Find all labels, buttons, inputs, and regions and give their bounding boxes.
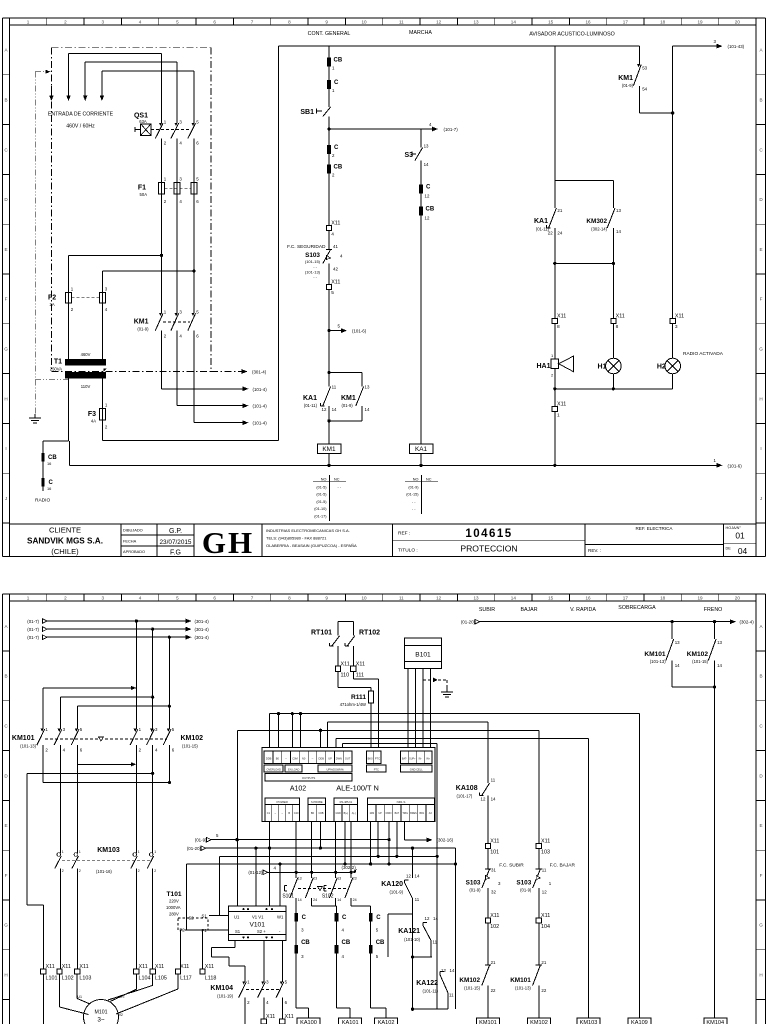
svg-text:KA121: KA121	[398, 928, 420, 935]
svg-text:REF :: REF :	[398, 531, 410, 537]
svg-text:X11: X11	[205, 964, 214, 970]
svg-text:KM1: KM1	[618, 75, 633, 82]
svg-text:KA1: KA1	[534, 218, 548, 225]
svg-text:12: 12	[436, 596, 442, 601]
svg-text:W2: W2	[118, 1013, 123, 1017]
svg-text:C: C	[302, 915, 307, 921]
svg-text:6: 6	[213, 596, 216, 601]
svg-text:W1: W1	[277, 915, 284, 920]
svg-text:X11: X11	[266, 1014, 275, 1020]
svg-text:RS-485-61: RS-485-61	[340, 800, 353, 804]
svg-text:3: 3	[675, 324, 678, 330]
svg-text:DIBUJADO: DIBUJADO	[123, 528, 143, 533]
svg-text:TRIG: TRIG	[402, 812, 408, 815]
svg-text:H: H	[759, 396, 762, 401]
svg-text:11: 11	[415, 897, 420, 902]
svg-text:T1: T1	[54, 359, 62, 366]
svg-text:X11: X11	[557, 402, 566, 408]
svg-text:54: 54	[642, 87, 647, 92]
svg-text:(101-15): (101-15)	[464, 986, 480, 991]
svg-text:BRES: BRES	[410, 812, 417, 815]
svg-text:X11: X11	[675, 314, 684, 320]
svg-text:12: 12	[436, 19, 442, 24]
svg-text:G: G	[4, 923, 8, 928]
svg-text:(101-16): (101-16)	[96, 869, 112, 874]
svg-text:L101: L101	[46, 975, 58, 981]
svg-text:31: 31	[491, 868, 496, 873]
svg-text:F1: F1	[138, 185, 146, 192]
svg-text:S1: S1	[202, 913, 208, 918]
svg-text:(01-9): (01-9)	[520, 888, 532, 893]
svg-text:24: 24	[353, 898, 357, 902]
svg-text:7: 7	[251, 596, 254, 601]
svg-text:19: 19	[697, 596, 703, 601]
svg-text:(101-17): (101-17)	[457, 794, 473, 799]
svg-text:(01-17): (01-17)	[314, 515, 327, 519]
svg-text:C0B: C0B	[318, 811, 323, 815]
svg-text:BAJAR: BAJAR	[520, 607, 537, 613]
svg-text:(301-4): (301-4)	[195, 627, 210, 632]
svg-text:KM1: KM1	[341, 395, 356, 402]
svg-text:H: H	[4, 396, 7, 401]
svg-text:24: 24	[313, 898, 317, 902]
svg-text:13: 13	[424, 143, 429, 148]
svg-text:BR1: BR1	[420, 812, 425, 815]
svg-text:X11: X11	[490, 913, 499, 919]
svg-text:11: 11	[399, 19, 404, 24]
svg-text:B: B	[288, 811, 290, 815]
svg-text:M101: M101	[95, 1010, 108, 1016]
svg-text:17: 17	[623, 596, 629, 601]
svg-text:14: 14	[337, 898, 341, 902]
svg-text:B0: B0	[311, 811, 315, 815]
svg-text:12: 12	[481, 797, 486, 802]
svg-text:1: 1	[27, 596, 30, 601]
svg-text:(101-10): (101-10)	[404, 937, 420, 942]
svg-text:REV. :: REV. :	[588, 548, 601, 553]
svg-text:111: 111	[356, 673, 364, 679]
svg-text:PTC: PTC	[374, 767, 379, 771]
svg-text:20: 20	[735, 19, 741, 24]
svg-text:(302-4): (302-4)	[740, 620, 755, 625]
svg-text:B: B	[4, 674, 7, 679]
svg-text:01: 01	[735, 531, 745, 541]
svg-text:H2: H2	[657, 364, 666, 371]
svg-text:4: 4	[331, 231, 334, 237]
svg-text:15: 15	[548, 596, 554, 601]
svg-text:X11: X11	[331, 280, 340, 286]
svg-text:BAT: BAT	[395, 812, 400, 815]
svg-text:(01-7): (01-7)	[27, 635, 39, 640]
svg-text:C20: C20	[294, 811, 299, 815]
svg-text:X11: X11	[341, 661, 350, 667]
svg-text:DWN: DWN	[336, 757, 342, 761]
svg-text:20: 20	[735, 596, 741, 601]
svg-text:DE: DE	[726, 547, 732, 551]
svg-text:50A: 50A	[140, 192, 148, 197]
svg-text:(101-6): (101-6)	[352, 329, 367, 334]
svg-text:FECHA: FECHA	[123, 538, 137, 543]
svg-text:14: 14	[491, 797, 496, 802]
svg-text:2: 2	[64, 596, 67, 601]
svg-text:14: 14	[675, 663, 680, 668]
svg-text:X11: X11	[285, 1014, 294, 1020]
svg-text:24: 24	[557, 231, 562, 236]
svg-text:(CHILE): (CHILE)	[51, 547, 79, 556]
svg-text:(101-19): (101-19)	[217, 994, 233, 999]
svg-text:10M: 10M	[369, 812, 374, 815]
svg-text:PTC: PTC	[375, 757, 380, 761]
svg-text:5: 5	[176, 19, 179, 24]
svg-text:8: 8	[557, 324, 560, 330]
svg-text:GND: GND	[335, 812, 341, 815]
svg-text:A102: A102	[290, 786, 306, 793]
svg-text:(301-4): (301-4)	[252, 370, 267, 375]
svg-text:H: H	[759, 973, 762, 978]
svg-text:E: E	[4, 247, 7, 252]
svg-text:IN-: IN-	[419, 758, 422, 761]
svg-text:22: 22	[491, 988, 496, 993]
svg-text:KM101: KM101	[479, 1020, 497, 1024]
svg-text:14: 14	[298, 898, 302, 902]
svg-text:14: 14	[511, 596, 517, 601]
svg-text:10: 10	[361, 596, 367, 601]
svg-text:9: 9	[325, 596, 328, 601]
svg-text:4A: 4A	[91, 418, 96, 423]
svg-text:ENTRADA DE CORRIENTE: ENTRADA DE CORRIENTE	[48, 112, 114, 118]
svg-text:CB: CB	[301, 940, 310, 946]
svg-text:- -: - -	[313, 264, 317, 269]
svg-text:C: C	[334, 145, 339, 151]
svg-text:63A: 63A	[139, 119, 147, 124]
svg-text:102: 102	[490, 924, 499, 930]
svg-text:110: 110	[341, 673, 350, 679]
svg-text:1: 1	[154, 850, 156, 854]
svg-text:EN.LOAD: EN.LOAD	[288, 767, 300, 771]
svg-text:250VA: 250VA	[50, 366, 62, 371]
svg-text:(01-9): (01-9)	[137, 327, 149, 332]
svg-text:UP%/DOWN%: UP%/DOWN%	[327, 767, 345, 771]
svg-text:8: 8	[288, 596, 291, 601]
svg-text:(302-14): (302-14)	[591, 227, 607, 232]
svg-text:C0M: C0M	[292, 757, 297, 761]
svg-text:T101: T101	[167, 891, 182, 898]
svg-text:G: G	[759, 923, 763, 928]
svg-text:L104: L104	[139, 975, 151, 981]
svg-text:21: 21	[557, 208, 562, 213]
svg-text:(01-20): (01-20)	[187, 846, 202, 851]
svg-text:1: 1	[79, 850, 81, 854]
svg-text:10: 10	[361, 19, 367, 24]
svg-text:14: 14	[332, 407, 337, 412]
svg-text:(101-7): (101-7)	[444, 127, 459, 132]
svg-text:S101: S101	[282, 894, 294, 900]
svg-text:(01-9): (01-9)	[195, 837, 207, 842]
svg-text:X11: X11	[46, 964, 55, 970]
svg-text:RT101: RT101	[311, 630, 332, 637]
svg-text:104: 104	[541, 924, 550, 930]
svg-text:X11: X11	[490, 839, 499, 845]
svg-text:DDB: DDB	[266, 757, 272, 761]
svg-text:110V: 110V	[81, 384, 91, 389]
svg-text:11: 11	[399, 596, 404, 601]
svg-text:19: 19	[697, 19, 703, 24]
svg-text:(101-43): (101-43)	[728, 44, 745, 49]
svg-text:2A: 2A	[50, 302, 55, 307]
svg-text:KA101: KA101	[342, 1020, 359, 1024]
svg-text:--: --	[274, 812, 276, 815]
svg-text:C: C	[334, 80, 339, 86]
svg-text:C: C	[376, 915, 381, 921]
svg-text:X11: X11	[356, 661, 365, 667]
svg-text:12: 12	[441, 968, 446, 973]
svg-text:L118: L118	[205, 975, 217, 981]
svg-text:HA1: HA1	[536, 363, 550, 370]
svg-text:SUP+: SUP+	[409, 758, 416, 761]
svg-text:2: 2	[79, 869, 81, 873]
svg-text:13: 13	[717, 640, 722, 645]
svg-text:13: 13	[365, 385, 370, 390]
svg-text:C: C	[426, 185, 431, 191]
svg-text:UP: UP	[328, 757, 332, 761]
svg-text:OUTPUTS: OUTPUTS	[302, 776, 315, 780]
svg-text:CB: CB	[342, 940, 351, 946]
svg-text:GH: GH	[202, 525, 254, 560]
svg-text:MARCHA: MARCHA	[409, 30, 432, 36]
svg-text:(01-9): (01-9)	[469, 888, 481, 893]
svg-text:E: E	[4, 823, 7, 828]
svg-text:1: 1	[62, 850, 64, 854]
svg-text:E: E	[759, 823, 762, 828]
svg-text:FRENO: FRENO	[704, 607, 723, 613]
svg-text:42: 42	[333, 267, 338, 272]
svg-text:460V: 460V	[81, 352, 91, 357]
svg-text:13: 13	[473, 19, 479, 24]
svg-text:U1: U1	[234, 915, 240, 920]
svg-text:53: 53	[642, 66, 647, 71]
svg-text:18: 18	[660, 596, 666, 601]
svg-text:(301-4): (301-4)	[195, 619, 210, 624]
svg-text:I: I	[760, 446, 761, 451]
svg-text:B(+): B(+)	[344, 812, 349, 815]
svg-text:280V: 280V	[169, 912, 179, 917]
svg-text:TELS: (943)805980 - FAX 888721: TELS: (943)805980 - FAX 888721	[266, 535, 327, 540]
svg-text:103: 103	[541, 850, 550, 856]
svg-text:RT102: RT102	[359, 630, 380, 637]
svg-text:KM101: KM101	[510, 977, 531, 984]
svg-text:13: 13	[298, 877, 302, 881]
svg-text:B: B	[759, 674, 762, 679]
svg-text:SB1: SB1	[300, 109, 314, 116]
svg-text:B101: B101	[415, 652, 431, 659]
svg-text:J: J	[760, 496, 762, 501]
svg-text:23: 23	[353, 877, 357, 881]
svg-text:CB: CB	[334, 58, 343, 64]
svg-text:1: 1	[27, 19, 30, 24]
svg-text:IN+: IN+	[426, 758, 430, 761]
svg-text:KM102: KM102	[181, 735, 204, 742]
svg-text:21: 21	[541, 960, 546, 965]
svg-text:S2 +: S2 +	[257, 929, 266, 934]
svg-text:14: 14	[433, 916, 438, 921]
svg-text:GND CELL: GND CELL	[410, 767, 424, 771]
svg-text:G: G	[4, 347, 8, 352]
svg-text:X11: X11	[139, 964, 148, 970]
svg-text:KA109: KA109	[631, 1020, 648, 1024]
svg-text:KA108: KA108	[456, 785, 478, 792]
svg-text:2: 2	[154, 869, 156, 873]
svg-text:11: 11	[449, 993, 454, 998]
svg-text:3: 3	[101, 596, 104, 601]
svg-text:12: 12	[406, 874, 411, 879]
svg-text:(01-5): (01-5)	[316, 493, 327, 497]
svg-text:V1 V1: V1 V1	[252, 915, 264, 920]
svg-text:KM1: KM1	[134, 319, 149, 326]
svg-text:22: 22	[541, 988, 546, 993]
svg-text:104615: 104615	[465, 528, 512, 540]
svg-text:KM104: KM104	[210, 985, 233, 992]
svg-text:TITULO :: TITULO :	[398, 548, 418, 554]
svg-text:(101-15): (101-15)	[692, 659, 708, 664]
svg-text:B: B	[4, 98, 7, 103]
svg-text:16: 16	[585, 19, 591, 24]
svg-text:X11: X11	[557, 314, 566, 320]
svg-text:(01-9): (01-9)	[408, 485, 419, 489]
svg-text:F.C. SEGURIDAD: F.C. SEGURIDAD	[287, 244, 326, 250]
svg-text:(01-5): (01-5)	[316, 500, 327, 504]
svg-text:(101-6): (101-6)	[728, 463, 743, 468]
svg-text:L102: L102	[62, 975, 74, 981]
svg-text:(01-10): (01-10)	[314, 507, 327, 511]
svg-text:L117: L117	[180, 975, 192, 981]
svg-text:(101-4): (101-4)	[253, 404, 268, 409]
svg-text:(01-15): (01-15)	[406, 493, 419, 497]
svg-text:NO: NO	[321, 478, 327, 482]
svg-text:(101-15): (101-15)	[182, 744, 198, 749]
svg-text:5: 5	[331, 290, 334, 296]
svg-text:H1: H1	[598, 364, 607, 371]
svg-text:(01-11): (01-11)	[536, 227, 550, 232]
svg-text:F: F	[5, 297, 8, 302]
svg-text:PROTECCION: PROTECCION	[460, 544, 517, 554]
svg-text:DWN: DWN	[386, 812, 392, 815]
svg-text:1: 1	[138, 850, 140, 854]
svg-text:X11: X11	[541, 913, 550, 919]
svg-text:CB: CB	[426, 207, 435, 213]
svg-text:14: 14	[616, 229, 621, 234]
svg-text:11: 11	[491, 778, 496, 783]
svg-text:8: 8	[616, 324, 619, 330]
svg-text:11: 11	[433, 940, 438, 945]
svg-text:F.C. BAJAR: F.C. BAJAR	[550, 863, 576, 869]
svg-text:G: G	[759, 347, 763, 352]
svg-text:16: 16	[585, 596, 591, 601]
svg-text:14: 14	[365, 407, 370, 412]
svg-text:H: H	[4, 973, 7, 978]
svg-text:OVERLOAD: OVERLOAD	[266, 767, 281, 771]
svg-text:18: 18	[660, 19, 666, 24]
svg-text:F.C. SUBIR: F.C. SUBIR	[499, 863, 524, 869]
svg-text:C1: C1	[267, 811, 271, 815]
svg-text:CLIENTE: CLIENTE	[49, 526, 81, 535]
svg-text:3: 3	[101, 19, 104, 24]
svg-text:ALE-100/T N: ALE-100/T N	[336, 784, 379, 793]
svg-text:23: 23	[313, 877, 317, 881]
svg-text:KM101: KM101	[644, 651, 666, 658]
svg-text:KM302: KM302	[586, 218, 607, 225]
svg-text:KA122: KA122	[416, 980, 438, 987]
svg-text:S2: S2	[189, 916, 195, 921]
svg-text:12: 12	[542, 890, 547, 895]
svg-text:B: B	[759, 98, 762, 103]
svg-text:KM102: KM102	[687, 651, 709, 658]
svg-text:X11: X11	[541, 839, 550, 845]
svg-text:12: 12	[425, 194, 430, 199]
svg-text:L105: L105	[155, 975, 167, 981]
svg-text:S102: S102	[322, 894, 334, 900]
svg-text:L103: L103	[79, 975, 91, 981]
svg-text:16: 16	[47, 461, 51, 466]
svg-text:2: 2	[64, 19, 67, 24]
svg-text:220V: 220V	[169, 899, 179, 904]
svg-text:OUT: OUT	[345, 757, 351, 761]
svg-text:G.P.: G.P.	[169, 528, 182, 535]
svg-text:(01-9): (01-9)	[622, 83, 634, 88]
svg-text:INDUSTRIAS ELECTROMECANICAS GH: INDUSTRIAS ELECTROMECANICAS GH S.A.	[266, 528, 350, 533]
svg-text:CONT. GENERAL: CONT. GENERAL	[308, 31, 351, 37]
svg-text:2: 2	[62, 869, 64, 873]
svg-text:NC: NC	[426, 478, 432, 482]
svg-text:CB: CB	[334, 165, 343, 171]
svg-text:KA1: KA1	[303, 395, 317, 402]
svg-text:KM103: KM103	[97, 847, 120, 854]
svg-text:11: 11	[332, 385, 337, 390]
svg-text:X11: X11	[155, 964, 164, 970]
svg-text:RADIO: RADIO	[35, 498, 50, 504]
svg-text:AVISADOR ACUSTICO-LUMINOSO: AVISADOR ACUSTICO-LUMINOSO	[529, 32, 615, 38]
svg-text:KM102: KM102	[530, 1020, 548, 1024]
svg-text:S103: S103	[516, 880, 531, 887]
svg-text:(101-9): (101-9)	[390, 890, 404, 895]
svg-text:(01-5): (01-5)	[316, 485, 327, 489]
svg-text:R111: R111	[351, 694, 366, 701]
svg-text:12: 12	[322, 407, 327, 412]
svg-text:--: --	[281, 812, 283, 815]
svg-text:X11: X11	[79, 964, 88, 970]
svg-text:REF. ELECTRICA: REF. ELECTRICA	[635, 526, 673, 531]
svg-text:F: F	[5, 873, 8, 878]
svg-text:(301-4): (301-4)	[195, 635, 210, 640]
svg-text:7: 7	[251, 19, 254, 24]
svg-text:NR1.S: NR1.S	[397, 800, 406, 804]
svg-text:(01-11): (01-11)	[304, 403, 318, 408]
svg-text:41: 41	[333, 244, 338, 249]
svg-text:13: 13	[473, 596, 479, 601]
svg-text:5: 5	[176, 596, 179, 601]
svg-text:(01-9): (01-9)	[342, 403, 354, 408]
svg-text:14: 14	[717, 663, 722, 668]
svg-text:(01-20): (01-20)	[461, 620, 476, 625]
svg-text:X11: X11	[180, 964, 189, 970]
svg-text:(302-2): (302-2)	[342, 865, 357, 870]
svg-text:11: 11	[542, 868, 547, 873]
svg-text:04: 04	[738, 546, 748, 556]
svg-text:KA102: KA102	[378, 1020, 395, 1024]
svg-text:KA1: KA1	[415, 446, 428, 453]
svg-text:460V / 60Hz: 460V / 60Hz	[66, 124, 95, 130]
svg-text:(01-12): (01-12)	[248, 870, 263, 875]
svg-text:14: 14	[511, 19, 517, 24]
